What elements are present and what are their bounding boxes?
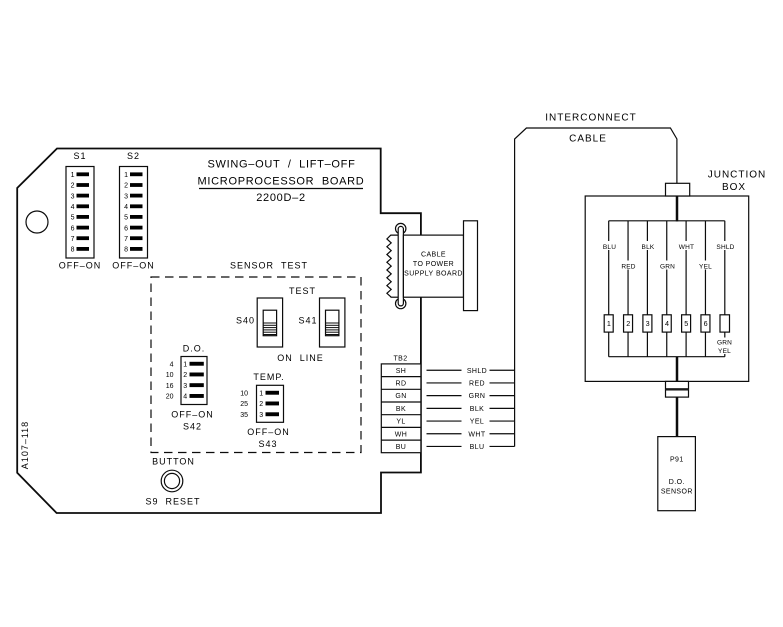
svg-text:6: 6 bbox=[124, 225, 128, 232]
svg-text:S2: S2 bbox=[127, 151, 140, 161]
svg-text:SENSOR: SENSOR bbox=[661, 489, 693, 496]
svg-text:4: 4 bbox=[71, 204, 75, 211]
wire BLU bbox=[427, 444, 515, 451]
svg-text:BLU: BLU bbox=[603, 244, 616, 251]
svg-text:D.O.: D.O. bbox=[183, 344, 206, 354]
title underline bbox=[199, 188, 363, 190]
svg-text:16: 16 bbox=[166, 383, 174, 390]
svg-text:4: 4 bbox=[665, 319, 669, 328]
junction terminal 1 bbox=[604, 315, 613, 332]
svg-text:3: 3 bbox=[646, 319, 650, 328]
svg-text:1: 1 bbox=[124, 172, 128, 179]
svg-text:3: 3 bbox=[183, 383, 187, 390]
svg-text:OFF–ON: OFF–ON bbox=[112, 261, 155, 271]
sensor cable (bold) bbox=[676, 397, 679, 437]
svg-text:GRN: GRN bbox=[660, 264, 675, 271]
svg-text:BUTTON: BUTTON bbox=[152, 457, 195, 467]
svg-text:10: 10 bbox=[240, 391, 248, 398]
dip switch S43 (TEMP.) bbox=[240, 372, 290, 449]
svg-text:25: 25 bbox=[240, 401, 248, 408]
svg-text:8: 8 bbox=[124, 247, 128, 254]
svg-text:WHT: WHT bbox=[468, 431, 485, 438]
bold feed wire (top) bbox=[676, 196, 679, 221]
svg-text:MICROPROCESSOR BOARD: MICROPROCESSOR BOARD bbox=[198, 176, 365, 188]
D.O. sensor P91 bbox=[658, 437, 696, 511]
svg-text:S42: S42 bbox=[183, 422, 202, 432]
svg-text:OFF–ON: OFF–ON bbox=[171, 410, 214, 420]
svg-text:YEL: YEL bbox=[470, 419, 484, 426]
svg-text:6: 6 bbox=[71, 225, 75, 232]
wire SHLD bbox=[427, 368, 515, 375]
connector bracket bbox=[464, 221, 478, 311]
svg-text:CABLE: CABLE bbox=[569, 134, 607, 145]
reset button S9 bbox=[145, 457, 200, 507]
svg-text:YL: YL bbox=[396, 419, 405, 426]
wire YEL bbox=[427, 419, 515, 426]
wire WHT bbox=[427, 431, 515, 438]
svg-text:1: 1 bbox=[183, 362, 187, 369]
svg-text:S1: S1 bbox=[73, 151, 86, 161]
svg-text:BLK: BLK bbox=[470, 406, 484, 413]
svg-text:RD: RD bbox=[396, 381, 407, 388]
svg-text:BU: BU bbox=[396, 444, 407, 451]
cable bar bbox=[398, 226, 403, 306]
dip switch S2 bbox=[112, 151, 155, 271]
svg-text:TEST: TEST bbox=[289, 286, 316, 296]
svg-text:20: 20 bbox=[166, 394, 174, 401]
svg-text:TO POWER: TO POWER bbox=[413, 261, 454, 268]
svg-text:3: 3 bbox=[71, 193, 75, 200]
board outline bbox=[17, 149, 421, 514]
zigzag strain relief bbox=[387, 235, 391, 297]
svg-text:2: 2 bbox=[259, 401, 263, 408]
junction terminal 6 bbox=[701, 315, 710, 332]
svg-text:OFF–ON: OFF–ON bbox=[247, 427, 290, 437]
svg-text:2: 2 bbox=[71, 183, 75, 190]
svg-text:4: 4 bbox=[170, 362, 174, 369]
cable top circle bbox=[396, 223, 406, 233]
svg-text:5: 5 bbox=[684, 319, 688, 328]
svg-text:YEL: YEL bbox=[718, 348, 731, 355]
board title text bbox=[198, 159, 365, 205]
svg-text:SHLD: SHLD bbox=[467, 368, 487, 375]
dip switch S42 (D.O.) bbox=[166, 344, 214, 432]
svg-text:TEMP.: TEMP. bbox=[253, 372, 284, 382]
connector top edge bbox=[391, 234, 464, 236]
toggle switch S40 bbox=[236, 298, 283, 347]
dip switch S1 bbox=[59, 151, 102, 271]
svg-text:WH: WH bbox=[395, 431, 407, 438]
svg-text:2: 2 bbox=[183, 372, 187, 379]
svg-text:ON LINE: ON LINE bbox=[277, 353, 324, 363]
svg-text:2: 2 bbox=[626, 319, 630, 328]
svg-text:SWING–OUT / LIFT–OFF: SWING–OUT / LIFT–OFF bbox=[207, 159, 355, 171]
svg-text:8: 8 bbox=[71, 247, 75, 254]
wire GRN bbox=[427, 393, 515, 400]
svg-text:WHT: WHT bbox=[679, 244, 694, 251]
svg-text:S9 RESET: S9 RESET bbox=[145, 497, 200, 507]
svg-text:1: 1 bbox=[259, 391, 263, 398]
svg-text:BK: BK bbox=[396, 406, 406, 413]
junction box bottom connector bbox=[666, 381, 689, 397]
junction terminal 2 bbox=[624, 315, 633, 332]
svg-text:OFF–ON: OFF–ON bbox=[59, 261, 102, 271]
svg-text:10: 10 bbox=[166, 372, 174, 379]
svg-text:7: 7 bbox=[124, 236, 128, 243]
svg-text:4: 4 bbox=[124, 204, 128, 211]
junction terminal 3 bbox=[643, 315, 652, 332]
junction internal bus bottom bbox=[609, 356, 725, 358]
wire RED bbox=[427, 381, 515, 388]
svg-text:GRN: GRN bbox=[469, 393, 486, 400]
svg-text:BOX: BOX bbox=[722, 182, 746, 193]
svg-text:SUPPLY BOARD: SUPPLY BOARD bbox=[404, 271, 463, 278]
svg-text:P91: P91 bbox=[670, 457, 684, 464]
svg-text:RED: RED bbox=[469, 381, 485, 388]
svg-text:2: 2 bbox=[124, 183, 128, 190]
svg-text:D.O.: D.O. bbox=[669, 479, 685, 486]
junction wire 4 (GRN) bbox=[666, 221, 668, 357]
svg-text:4: 4 bbox=[183, 394, 187, 401]
svg-text:35: 35 bbox=[240, 412, 248, 419]
cable to power supply board connector bbox=[387, 221, 478, 311]
svg-text:CABLE: CABLE bbox=[421, 252, 446, 259]
svg-text:SHLD: SHLD bbox=[716, 244, 734, 251]
svg-text:1: 1 bbox=[607, 319, 611, 328]
junction wire 2 (RED) bbox=[627, 221, 629, 357]
svg-text:A107–118: A107–118 bbox=[20, 421, 30, 469]
svg-text:S40: S40 bbox=[236, 316, 255, 326]
junction wire 7 (SHLD) bbox=[724, 221, 726, 357]
svg-text:7: 7 bbox=[71, 236, 75, 243]
junction internal bus top bbox=[609, 220, 725, 222]
svg-text:GN: GN bbox=[395, 393, 406, 400]
wire BLK bbox=[427, 406, 515, 413]
svg-text:GRN: GRN bbox=[717, 340, 732, 347]
svg-text:SENSOR TEST: SENSOR TEST bbox=[230, 261, 308, 271]
interconnect cable bracket bbox=[515, 113, 677, 447]
junction terminal 4 bbox=[662, 315, 671, 332]
svg-text:BLK: BLK bbox=[642, 244, 655, 251]
svg-text:S41: S41 bbox=[298, 316, 317, 326]
svg-text:JUNCTION: JUNCTION bbox=[708, 170, 767, 181]
svg-text:RED: RED bbox=[621, 264, 635, 271]
svg-text:YEL: YEL bbox=[699, 264, 712, 271]
cable bottom circle bbox=[396, 298, 406, 308]
svg-text:3: 3 bbox=[259, 412, 263, 419]
mounting hole bbox=[26, 211, 48, 233]
junction box bbox=[585, 170, 766, 382]
svg-text:5: 5 bbox=[124, 215, 128, 222]
svg-text:3: 3 bbox=[124, 193, 128, 200]
connector bottom edge bbox=[391, 296, 405, 298]
terminal block TB2 bbox=[381, 356, 421, 453]
svg-text:1: 1 bbox=[71, 172, 75, 179]
junction shield terminal bbox=[716, 315, 734, 355]
svg-text:5: 5 bbox=[71, 215, 75, 222]
svg-text:SH: SH bbox=[396, 368, 407, 375]
junction terminal 5 bbox=[682, 315, 691, 332]
svg-text:BLU: BLU bbox=[470, 444, 485, 451]
bold feed wire (bottom) bbox=[676, 357, 679, 382]
junction box top connector bbox=[666, 183, 690, 196]
svg-text:S43: S43 bbox=[258, 439, 277, 449]
svg-text:TB2: TB2 bbox=[393, 356, 407, 363]
svg-text:INTERCONNECT: INTERCONNECT bbox=[545, 113, 636, 124]
junction wire labels row A bbox=[601, 241, 736, 251]
junction wire 3 (BLK) bbox=[646, 221, 648, 357]
junction wire 6 (YEL) bbox=[704, 221, 706, 357]
svg-text:6: 6 bbox=[704, 319, 708, 328]
connector body box bbox=[403, 235, 463, 297]
junction wire 5 (WHT) bbox=[685, 221, 687, 357]
svg-text:2200D–2: 2200D–2 bbox=[256, 192, 306, 204]
junction wire 1 (BLU) bbox=[608, 221, 610, 357]
toggle switch S41 bbox=[298, 298, 344, 347]
junction wire labels row B bbox=[621, 261, 714, 271]
